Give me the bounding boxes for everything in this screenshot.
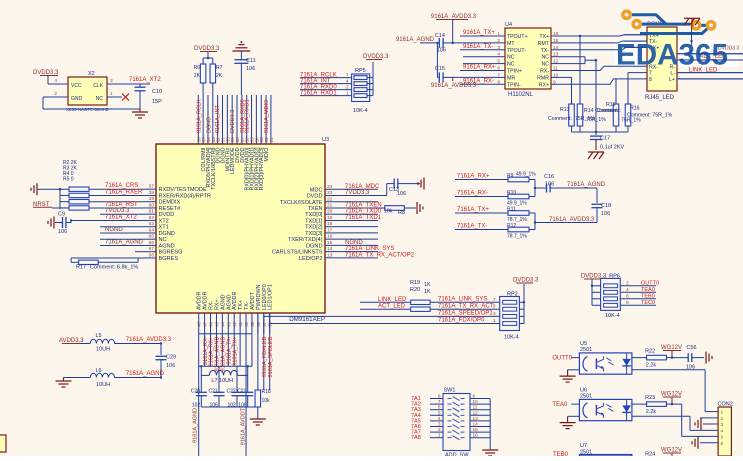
svg-text:61: 61 xyxy=(149,209,155,215)
svg-text:106: 106 xyxy=(601,211,610,217)
svg-text:NC: NC xyxy=(507,62,515,68)
svg-text:7161A_TX-: 7161A_TX- xyxy=(457,224,487,230)
svg-text:R12: R12 xyxy=(507,223,516,229)
svg-text:C9: C9 xyxy=(58,212,65,218)
svg-text:R20: R20 xyxy=(410,287,420,293)
svg-text:102: 102 xyxy=(192,403,201,409)
svg-text:7: 7 xyxy=(649,71,652,77)
svg-text:TXCLK/ISOLATE: TXCLK/ISOLATE xyxy=(280,200,323,206)
svg-text:U4: U4 xyxy=(505,22,512,28)
svg-text:0.1uf 2KV: 0.1uf 2KV xyxy=(600,145,624,151)
svg-text:EDA365: EDA365 xyxy=(616,39,728,72)
svg-text:R11: R11 xyxy=(507,207,516,213)
svg-text:C11: C11 xyxy=(246,58,256,64)
svg-text:L5: L5 xyxy=(96,333,102,339)
svg-text:BGRESG: BGRESG xyxy=(159,250,183,256)
svg-text:DGND: DGND xyxy=(306,243,322,249)
svg-text:R10: R10 xyxy=(507,190,516,196)
svg-text:8: 8 xyxy=(626,300,629,306)
svg-text:7161A_TX_RX_ACT/OP2: 7161A_TX_RX_ACT/OP2 xyxy=(345,252,415,258)
svg-text:RP2: RP2 xyxy=(507,292,518,298)
svg-text:6: 6 xyxy=(497,66,500,72)
svg-text:NC: NC xyxy=(542,62,550,68)
svg-text:7161A_TXD1: 7161A_TXD1 xyxy=(345,215,382,221)
svg-text:U7: U7 xyxy=(580,443,587,449)
svg-text:10K-4: 10K-4 xyxy=(504,335,519,341)
svg-text:13: 13 xyxy=(327,252,333,258)
svg-text:21: 21 xyxy=(327,202,333,208)
svg-text:NC: NC xyxy=(542,55,550,61)
svg-text:Comment: 75R_1%: Comment: 75R_1% xyxy=(627,113,673,119)
svg-text:7VDD3.3: 7VDD3.3 xyxy=(345,190,370,196)
svg-text:64: 64 xyxy=(149,227,155,233)
svg-text:R13: R13 xyxy=(560,107,570,113)
svg-text:TXER/TXD(4): TXER/TXD(4) xyxy=(288,237,323,243)
svg-text:TEB0: TEB0 xyxy=(641,293,655,299)
svg-text:OUTT0: OUTT0 xyxy=(641,280,659,286)
svg-text:U3: U3 xyxy=(322,137,329,143)
svg-text:9161A_AGND: 9161A_AGND xyxy=(193,408,199,443)
svg-text:5: 5 xyxy=(497,59,500,65)
svg-text:OUTT0: OUTT0 xyxy=(552,355,572,361)
svg-text:RMR: RMR xyxy=(537,75,549,81)
svg-text:CLK: CLK xyxy=(93,83,103,89)
svg-text:RESET#: RESET# xyxy=(159,206,182,212)
svg-text:XT2: XT2 xyxy=(159,218,169,224)
svg-text:2: 2 xyxy=(497,38,500,44)
svg-text:C16: C16 xyxy=(544,174,554,180)
svg-text:1K: 1K xyxy=(424,289,431,295)
svg-text:10: 10 xyxy=(473,399,479,405)
svg-text:TXEN: TXEN xyxy=(308,206,323,212)
svg-text:MDC: MDC xyxy=(310,187,323,193)
svg-text:78.7_1%: 78.7_1% xyxy=(507,234,527,240)
svg-text:DEMDIX: DEMDIX xyxy=(159,200,181,206)
svg-text:67: 67 xyxy=(149,246,155,252)
svg-text:23: 23 xyxy=(327,190,333,196)
svg-text:TEB0: TEB0 xyxy=(553,452,569,456)
svg-text:66: 66 xyxy=(149,240,155,246)
svg-text:9161A_RX+: 9161A_RX+ xyxy=(463,65,496,71)
svg-text:3: 3 xyxy=(497,45,500,51)
svg-text:TPOUT+: TPOUT+ xyxy=(507,34,528,40)
svg-text:9: 9 xyxy=(553,79,556,85)
svg-text:C17: C17 xyxy=(600,136,610,142)
svg-text:Comment:: Comment: xyxy=(597,108,621,114)
svg-text:68: 68 xyxy=(149,252,155,258)
svg-text:2: 2 xyxy=(438,427,441,433)
svg-text:7161A_TXD0: 7161A_TXD0 xyxy=(345,209,382,215)
svg-text:5: 5 xyxy=(438,410,441,416)
svg-text:DVDD: DVDD xyxy=(159,212,175,218)
svg-text:7161A_RX-: 7161A_RX- xyxy=(457,191,488,197)
svg-text:13: 13 xyxy=(473,416,479,422)
svg-text:106: 106 xyxy=(210,403,219,409)
svg-text:9161A_TX-: 9161A_TX- xyxy=(463,44,493,50)
svg-text:4: 4 xyxy=(626,287,629,293)
svg-text:2501: 2501 xyxy=(580,347,592,353)
svg-text:X2: X2 xyxy=(88,71,95,77)
svg-text:9161A_AVDDT: 9161A_AVDDT xyxy=(241,407,247,445)
svg-text:5: 5 xyxy=(721,434,724,440)
svg-text:16: 16 xyxy=(553,31,559,37)
svg-text:MDIO: MDIO xyxy=(264,148,270,162)
svg-text:9161A_TX+: 9161A_TX+ xyxy=(232,337,238,366)
svg-text:DGND: DGND xyxy=(206,117,212,133)
svg-text:9161A_SPDLED: 9161A_SPDLED xyxy=(268,336,274,377)
svg-text:8: 8 xyxy=(438,394,441,400)
svg-text:7161A_RX+: 7161A_RX+ xyxy=(457,174,490,180)
svg-text:1: 1 xyxy=(493,318,496,324)
svg-text:65: 65 xyxy=(149,234,155,240)
svg-text:R17: R17 xyxy=(76,264,86,270)
svg-text:C20: C20 xyxy=(191,389,200,395)
svg-text:4: 4 xyxy=(54,78,57,84)
svg-text:9161A_AGND: 9161A_AGND xyxy=(396,37,435,43)
svg-text:C21: C21 xyxy=(209,389,218,395)
svg-text:R7: R7 xyxy=(216,65,223,71)
svg-text:AGND: AGND xyxy=(159,243,175,249)
svg-text:102: 102 xyxy=(228,403,237,409)
svg-text:9: 9 xyxy=(473,394,476,400)
svg-text:SW1: SW1 xyxy=(444,388,456,394)
svg-text:MT: MT xyxy=(507,41,515,47)
svg-text:NC: NC xyxy=(507,55,515,61)
svg-text:R8: R8 xyxy=(398,210,405,216)
svg-text:H1102NL: H1102NL xyxy=(508,92,534,98)
svg-text:L7 10UH: L7 10UH xyxy=(211,378,233,384)
svg-text:C10: C10 xyxy=(152,89,162,95)
svg-text:9161A_RCLK: 9161A_RCLK xyxy=(197,99,203,133)
svg-text:7161A_XT2: 7161A_XT2 xyxy=(129,77,161,83)
svg-text:62: 62 xyxy=(149,215,155,221)
svg-text:1: 1 xyxy=(721,410,724,416)
svg-text:11: 11 xyxy=(553,66,558,72)
svg-text:7161A_SPEED/OP1: 7161A_SPEED/OP1 xyxy=(438,311,493,317)
svg-text:GND: GND xyxy=(71,96,83,102)
svg-text:12: 12 xyxy=(553,59,559,65)
svg-text:2: 2 xyxy=(626,280,629,286)
svg-text:2K: 2K xyxy=(194,73,201,79)
svg-text:7161A_AGND: 7161A_AGND xyxy=(126,371,165,377)
svg-text:1K: 1K xyxy=(424,282,431,288)
svg-text:7: 7 xyxy=(493,297,496,303)
svg-text:9161A_RXD1: 9161A_RXD1 xyxy=(245,99,251,133)
svg-text:9161A_TX+: 9161A_TX+ xyxy=(463,30,495,36)
svg-text:7A8: 7A8 xyxy=(411,435,421,441)
svg-text:21: 21 xyxy=(269,137,274,142)
svg-text:LED/OP2: LED/OP2 xyxy=(299,256,323,262)
svg-text:14: 14 xyxy=(553,45,559,51)
svg-text:C56: C56 xyxy=(687,345,697,351)
svg-text:106: 106 xyxy=(545,182,554,188)
svg-text:12: 12 xyxy=(473,410,479,416)
svg-text:NGND: NGND xyxy=(105,227,123,233)
svg-text:7161A_AGND: 7161A_AGND xyxy=(105,239,144,245)
svg-text:R18: R18 xyxy=(262,389,271,395)
svg-text:10k: 10k xyxy=(262,398,271,404)
svg-text:7161A_RXER: 7161A_RXER xyxy=(105,190,143,196)
svg-text:37: 37 xyxy=(149,184,155,190)
svg-text:MR: MR xyxy=(507,75,515,81)
svg-text:R9: R9 xyxy=(507,173,514,179)
svg-text:TX-: TX- xyxy=(541,48,550,54)
svg-text:10K-4: 10K-4 xyxy=(605,313,620,319)
svg-text:R22: R22 xyxy=(645,349,655,355)
svg-text:C14: C14 xyxy=(435,33,445,39)
svg-text:3: 3 xyxy=(721,422,724,428)
svg-text:4: 4 xyxy=(721,428,724,434)
svg-text:2.2k: 2.2k xyxy=(646,363,657,369)
svg-text:63: 63 xyxy=(149,221,155,227)
svg-text:15: 15 xyxy=(553,38,559,44)
svg-text:RXDV/TESTMODE: RXDV/TESTMODE xyxy=(159,187,207,193)
svg-text:10UH: 10UH xyxy=(96,347,110,353)
svg-text:U5: U5 xyxy=(580,341,587,347)
svg-text:7161A_XT2: 7161A_XT2 xyxy=(105,214,137,220)
svg-text:TPIN-: TPIN- xyxy=(507,82,521,88)
svg-text:14: 14 xyxy=(473,422,479,428)
svg-text:X0S3-NAGTC-50MHZ: X0S3-NAGTC-50MHZ xyxy=(66,107,109,112)
svg-text:2501: 2501 xyxy=(580,394,592,400)
svg-text:3: 3 xyxy=(438,422,441,428)
svg-text:6: 6 xyxy=(438,405,441,411)
svg-text:C15: C15 xyxy=(435,66,445,72)
svg-text:10K-4: 10K-4 xyxy=(353,108,368,114)
svg-text:60: 60 xyxy=(149,202,155,208)
svg-text:TEA0: TEA0 xyxy=(641,287,655,293)
svg-text:6: 6 xyxy=(721,441,724,447)
svg-text:C29: C29 xyxy=(166,355,176,361)
svg-text:R6: R6 xyxy=(194,65,201,71)
svg-text:106: 106 xyxy=(58,229,67,235)
svg-text:TXD[3]: TXD[3] xyxy=(305,231,323,237)
svg-text:DM9161AEP: DM9161AEP xyxy=(289,316,325,323)
svg-text:2: 2 xyxy=(54,91,57,97)
svg-text:7161A_MDC: 7161A_MDC xyxy=(345,184,380,190)
svg-text:7161A_RST: 7161A_RST xyxy=(105,202,138,208)
svg-text:C18: C18 xyxy=(601,203,611,209)
svg-text:7VDD3.3: 7VDD3.3 xyxy=(105,208,130,214)
svg-text:8: 8 xyxy=(497,79,500,85)
svg-text:11: 11 xyxy=(473,405,478,411)
svg-text:TEC0: TEC0 xyxy=(641,300,655,306)
svg-text:XT1: XT1 xyxy=(159,225,169,231)
svg-text:RMT: RMT xyxy=(538,41,550,47)
svg-text:4: 4 xyxy=(346,78,349,84)
svg-text:TXD[1]: TXD[1] xyxy=(305,218,323,224)
svg-text:RX+: RX+ xyxy=(539,82,549,88)
svg-text:DVDD: DVDD xyxy=(307,194,323,200)
svg-text:TXD[2]: TXD[2] xyxy=(305,225,323,231)
svg-text:DGND: DGND xyxy=(159,231,175,237)
svg-text:R19: R19 xyxy=(410,280,420,286)
svg-text:106: 106 xyxy=(246,66,255,72)
svg-text:RX-: RX- xyxy=(540,69,549,75)
svg-text:C22: C22 xyxy=(227,389,236,395)
svg-text:3: 3 xyxy=(493,311,496,317)
svg-text:39: 39 xyxy=(149,196,155,202)
svg-text:2: 2 xyxy=(721,416,724,422)
svg-text:2K: 2K xyxy=(216,73,223,79)
svg-text:106: 106 xyxy=(397,191,406,197)
svg-text:2: 2 xyxy=(346,84,349,90)
svg-text:1: 1 xyxy=(497,31,500,37)
svg-text:1: 1 xyxy=(110,91,113,97)
svg-text:R5 0: R5 0 xyxy=(63,177,74,183)
svg-text:TXD[0]: TXD[0] xyxy=(305,212,323,218)
svg-text:17: 17 xyxy=(327,227,333,233)
svg-text:7: 7 xyxy=(346,72,349,78)
svg-text:7161A_LINK_SYS: 7161A_LINK_SYS xyxy=(345,246,394,252)
svg-text:10k: 10k xyxy=(384,209,393,215)
svg-text:10UH: 10UH xyxy=(96,382,110,388)
svg-text:18: 18 xyxy=(327,221,333,227)
svg-text:TPIN+: TPIN+ xyxy=(507,69,522,75)
svg-text:15: 15 xyxy=(327,240,333,246)
svg-text:75R_1%: 75R_1% xyxy=(586,117,606,123)
svg-text:4: 4 xyxy=(438,416,441,422)
svg-text:BGRES: BGRES xyxy=(159,256,179,262)
svg-text:1: 1 xyxy=(438,433,441,439)
svg-text:9161A_RX-: 9161A_RX- xyxy=(463,78,494,84)
svg-text:TPOUT-: TPOUT- xyxy=(507,48,526,54)
svg-text:7: 7 xyxy=(497,72,500,78)
svg-text:7161A_FDX/OP0: 7161A_FDX/OP0 xyxy=(438,318,485,324)
svg-text:13: 13 xyxy=(553,52,559,58)
svg-text:106: 106 xyxy=(166,363,175,369)
svg-text:38: 38 xyxy=(149,190,155,196)
svg-text:106: 106 xyxy=(238,403,247,409)
svg-text:TX+: TX+ xyxy=(539,34,549,40)
svg-text:15: 15 xyxy=(473,427,479,433)
svg-text:RXER/RXD(4)/RPTR: RXER/RXD(4)/RPTR xyxy=(159,193,212,199)
svg-text:DVDD3.3: DVDD3.3 xyxy=(230,110,236,133)
svg-text:VCC: VCC xyxy=(71,83,82,89)
svg-text:RP5: RP5 xyxy=(355,68,366,74)
svg-text:19: 19 xyxy=(327,215,333,221)
svg-text:106: 106 xyxy=(437,48,446,54)
svg-text:16: 16 xyxy=(327,234,333,240)
svg-text:Comment:: Comment: xyxy=(548,116,572,122)
svg-text:7161A_TX+: 7161A_TX+ xyxy=(457,207,489,213)
svg-text:NC: NC xyxy=(159,237,167,243)
svg-text:6: 6 xyxy=(626,293,629,299)
svg-text:7: 7 xyxy=(438,399,441,405)
svg-text:10: 10 xyxy=(553,72,559,78)
svg-text:7161A_TXEN: 7161A_TXEN xyxy=(345,202,382,208)
svg-text:5: 5 xyxy=(493,304,496,310)
svg-text:14: 14 xyxy=(327,246,333,252)
svg-text:2.2k: 2.2k xyxy=(646,409,657,415)
svg-text:7161A_RXD1: 7161A_RXD1 xyxy=(300,90,337,96)
svg-text:49.9_1%: 49.9_1% xyxy=(516,172,536,178)
svg-text:Comment: 6.8k_1%: Comment: 6.8k_1% xyxy=(90,264,138,270)
svg-text:U6: U6 xyxy=(580,387,587,393)
svg-text:4: 4 xyxy=(497,52,500,58)
svg-text:3: 3 xyxy=(110,78,113,84)
svg-text:7161A_CRS: 7161A_CRS xyxy=(105,183,138,189)
svg-text:9161A_INT: 9161A_INT xyxy=(215,105,221,133)
svg-text:TEA0: TEA0 xyxy=(552,402,568,408)
svg-text:7161A_LINK_SYS: 7161A_LINK_SYS xyxy=(438,297,487,303)
svg-text:L6: L6 xyxy=(96,368,102,374)
svg-text:15P: 15P xyxy=(152,99,162,105)
svg-text:L+: L+ xyxy=(669,77,675,83)
svg-text:7161A_TX_RX_ACT: 7161A_TX_RX_ACT xyxy=(438,303,494,309)
svg-text:9161A_MDIO: 9161A_MDIO xyxy=(264,99,270,133)
svg-text:R24: R24 xyxy=(645,452,655,457)
svg-text:NC: NC xyxy=(96,96,104,102)
svg-text:L-: L- xyxy=(670,71,675,77)
svg-text:1: 1 xyxy=(346,90,349,96)
svg-text:C23: C23 xyxy=(237,389,246,395)
svg-text:24: 24 xyxy=(327,184,333,190)
svg-text:22: 22 xyxy=(327,196,333,202)
svg-text:LED1/OP1: LED1/OP1 xyxy=(268,284,274,310)
svg-text:7161A_AVDD3.3: 7161A_AVDD3.3 xyxy=(549,217,595,223)
svg-text:R16: R16 xyxy=(630,106,640,112)
svg-text:NGND: NGND xyxy=(345,240,363,246)
svg-text:ADD_SW: ADD_SW xyxy=(445,453,469,457)
svg-text:7161A_AGND: 7161A_AGND xyxy=(567,182,606,188)
svg-text:7161A_AVDD3.3: 7161A_AVDD3.3 xyxy=(126,337,172,343)
svg-text:16: 16 xyxy=(473,433,479,439)
svg-text:RJ45_LED: RJ45_LED xyxy=(645,95,675,101)
svg-text:20: 20 xyxy=(327,209,333,215)
svg-text:CARLSTS/LINKSTS: CARLSTS/LINKSTS xyxy=(272,250,323,256)
svg-text:R23: R23 xyxy=(645,395,655,401)
svg-text:8: 8 xyxy=(649,77,652,83)
